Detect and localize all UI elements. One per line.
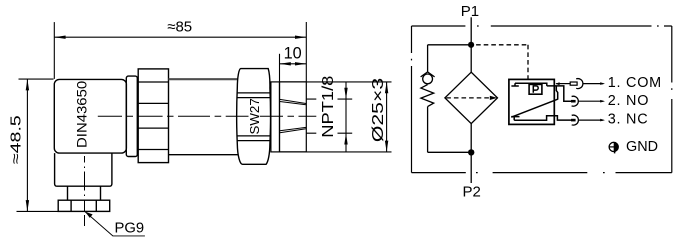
knurl line 3 <box>138 127 168 129</box>
hex face line bottom a <box>237 135 270 137</box>
O25x3 dimension extension top <box>280 81 392 83</box>
PG9 nut facet line left <box>70 200 72 211</box>
NPT1/8 arrow bottom (pointing up) <box>344 133 347 144</box>
dimension ~48.5 extension line top <box>19 78 54 80</box>
svg-text:P1: P1 <box>461 3 479 20</box>
PG9 nut facet line right <box>95 200 97 211</box>
wire junction to valve branch <box>428 44 472 46</box>
svg-text:GND: GND <box>626 139 658 155</box>
knurl line 2 <box>138 102 168 104</box>
gasket plate <box>126 76 137 156</box>
knurl line 4 <box>138 149 168 151</box>
arrowhead left of 10 <box>280 62 291 65</box>
P2 wire <box>470 152 472 183</box>
thread runout bottom b <box>280 127 306 130</box>
terminal 3 lead <box>579 119 604 121</box>
NPT1/8 dimension extension bottom <box>306 132 352 134</box>
svg-text:NPT1/8: NPT1/8 <box>319 76 336 138</box>
arrowhead left of ~85 <box>54 36 65 39</box>
diamond flow dashed diagonal <box>446 97 490 99</box>
ground symbol diameter line <box>609 146 618 148</box>
dimension line ~85 <box>54 36 306 38</box>
dimension 10 extension line left <box>279 54 281 82</box>
svg-text:2. NO: 2. NO <box>608 93 649 109</box>
device boundary box left edge <box>411 26 413 173</box>
COM link lever to terminal 1 <box>556 86 557 100</box>
check valve seat <box>421 72 435 77</box>
arrowhead top of ~48.5 <box>26 79 29 90</box>
O25x3 dimension line <box>386 82 388 152</box>
sealing washer O25x3 <box>271 82 280 152</box>
pressure switch box <box>509 79 554 124</box>
P actuator label <box>533 86 538 93</box>
hex nut SW27 <box>237 69 271 165</box>
coupling nut (knurl) <box>138 69 168 163</box>
dimension ~85 / 10 shared extension line right <box>305 22 307 82</box>
svg-text:DIN43650: DIN43650 <box>75 81 90 148</box>
thread runout top b <box>280 102 306 105</box>
svg-text:Ø25×3: Ø25×3 <box>369 78 386 142</box>
ground symbol right half fill <box>614 142 619 151</box>
svg-text:P2: P2 <box>463 183 481 200</box>
arrowhead bottom of ~48.5 <box>26 200 29 211</box>
hex face line bottom b <box>237 140 270 142</box>
terminal 1 wire <box>556 83 570 85</box>
sensing element (diamond) <box>445 72 498 123</box>
arrowhead right of ~85 <box>295 36 306 39</box>
actuation dashed wire horizontal <box>476 44 528 46</box>
NO fixed contact rail <box>511 83 546 86</box>
cable gland neck <box>68 186 101 200</box>
terminal 2 lead arrowhead <box>600 100 605 103</box>
terminal 2 lead <box>578 100 603 102</box>
dimension ~85 extension line left <box>53 22 55 79</box>
NC fixed contact rail to terminal 3 <box>514 116 571 121</box>
P1 wire <box>470 17 472 45</box>
lever pivot stub <box>511 117 519 121</box>
svg-text:≈85: ≈85 <box>167 19 192 36</box>
NPT1/8 arrow top (pointing down) <box>344 88 347 99</box>
terminal 3 lead arrowhead <box>600 119 605 122</box>
thread port outline <box>280 82 307 152</box>
horizontal center line <box>98 115 316 117</box>
wire bottom branch to junction <box>428 151 472 153</box>
node junction bottom <box>468 149 474 155</box>
wire diamond to bottom junction <box>470 124 472 153</box>
O25x3 arrow top (pointing up) <box>385 82 388 93</box>
ground symbol stub <box>614 152 616 154</box>
PG9 leader line <box>85 212 145 236</box>
thread runout bottom a <box>280 129 306 133</box>
PG9 leader arrowhead <box>85 212 93 218</box>
svg-text:1. COM: 1. COM <box>608 75 662 91</box>
sensor cylinder top edge <box>169 78 238 80</box>
hex face line top a <box>237 92 270 94</box>
vertical center line of gland <box>84 156 86 226</box>
hex face line top b <box>237 97 270 99</box>
device boundary box right edge <box>671 26 673 173</box>
actuation dashed wire vertical <box>527 45 529 80</box>
NO rail link to terminal 2 <box>547 86 572 101</box>
diamond diagonal arrowhead <box>490 96 497 100</box>
knurl line 1 <box>138 81 168 83</box>
NPT1/8 dimension line <box>345 82 347 152</box>
device boundary box (chain line) top edge <box>412 25 672 27</box>
svg-text:PG9: PG9 <box>115 220 145 236</box>
terminal 1 wire arrow to box <box>555 82 559 85</box>
arrowhead right of 10 <box>295 62 306 65</box>
wire valve to bottom <box>427 107 429 153</box>
thread runout top a <box>280 99 306 103</box>
svg-text:10: 10 <box>284 44 302 62</box>
dimension ~48.5 extension line bottom <box>17 210 58 212</box>
terminal 2 wire end <box>571 100 576 103</box>
O25x3 dimension extension bottom <box>280 151 392 153</box>
node junction top <box>468 42 474 48</box>
dimension line ~48.5 <box>26 79 28 211</box>
DIN connector body <box>54 79 126 153</box>
wire valve branch down <box>427 45 429 72</box>
terminal 1 tab <box>570 82 577 85</box>
terminal 3 wire end <box>571 119 576 122</box>
P actuator box <box>529 84 542 94</box>
switch lever (moving contact) <box>511 99 557 117</box>
terminal 3 socket arc <box>572 115 579 125</box>
PG9 gland nut <box>58 200 109 211</box>
terminal 1 lead arrowhead <box>600 82 605 85</box>
connector lower housing <box>55 153 112 186</box>
terminal 1 socket arc <box>576 79 583 89</box>
dimension line 10 <box>280 63 307 65</box>
terminal 2 socket arc <box>572 96 579 106</box>
terminal 1 lead <box>583 83 603 85</box>
NPT1/8 dimension extension top <box>306 98 352 100</box>
check valve ball <box>423 74 433 84</box>
O25x3 arrow bottom (pointing down) <box>385 141 388 152</box>
sensor cylinder bottom edge <box>169 154 239 156</box>
svg-text:≈48.5: ≈48.5 <box>7 115 24 164</box>
device boundary box bottom edge <box>412 172 672 174</box>
ground symbol circle <box>609 142 618 151</box>
svg-text:3. NC: 3. NC <box>608 112 649 128</box>
svg-text:SW27: SW27 <box>247 98 262 134</box>
spring <box>421 85 434 107</box>
wire junction to sensing element <box>470 45 472 72</box>
